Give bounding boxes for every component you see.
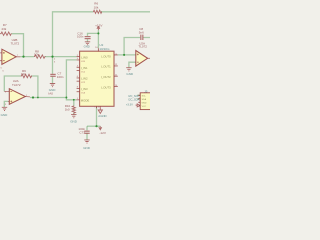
svg-text:I_IN3: I_IN3 [81,87,88,91]
svg-text:I_OUT0: I_OUT0 [101,54,112,58]
svg-text:GND: GND [142,103,147,105]
svg-text:TL072: TL072 [11,42,20,46]
svg-text:100n: 100n [57,75,64,79]
svg-text:I_OUT2: I_OUT2 [101,75,112,79]
svg-text:GND: GND [70,119,78,123]
svg-text:1k0: 1k0 [65,108,70,112]
svg-text:MODE: MODE [81,99,90,103]
svg-text:GND: GND [126,72,133,76]
svg-text:R6: R6 [94,1,98,5]
svg-text:GND: GND [83,146,91,150]
svg-text:43k: 43k [1,27,6,31]
svg-text:+3.3V: +3.3V [126,103,133,107]
svg-text:IA0: IA0 [48,92,53,96]
svg-text:I_OUT1: I_OUT1 [101,65,112,69]
svg-text:I_OUT3: I_OUT3 [101,85,112,89]
svg-text:I_IN1: I_IN1 [81,66,88,70]
svg-text:U2: U2 [99,43,103,47]
svg-text:5n6: 5n6 [139,30,144,34]
svg-text:TL072: TL072 [12,83,21,87]
svg-text:GND: GND [49,88,57,92]
svg-text:GND: GND [1,113,9,117]
svg-text:TL072: TL072 [138,44,147,48]
svg-text:AGND: AGND [98,114,106,118]
svg-text:VCC: VCC [142,106,147,108]
svg-text:-12V: -12V [99,131,106,135]
svg-text:I_IN0: I_IN0 [81,55,88,59]
svg-text:I_IN2: I_IN2 [81,77,88,81]
svg-text:10k: 10k [34,53,39,57]
svg-text:GND: GND [84,45,90,49]
svg-text:10k: 10k [94,5,99,9]
svg-text:100n: 100n [77,35,84,39]
svg-text:10k: 10k [21,72,26,76]
svg-text:C73: C73 [79,131,85,135]
svg-text:10/10m: 10/10m [99,47,110,51]
svg-text:+12V: +12V [95,24,103,28]
